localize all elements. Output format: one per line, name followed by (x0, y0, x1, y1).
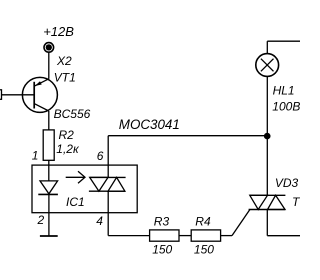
svg-text:4: 4 (96, 214, 103, 228)
svg-text:VD3: VD3 (275, 176, 299, 190)
svg-text:ТС: ТС (292, 195, 300, 209)
svg-text:R4: R4 (195, 214, 211, 228)
svg-text:2: 2 (37, 213, 45, 227)
svg-text:1: 1 (32, 148, 39, 162)
svg-text:HL1: HL1 (273, 84, 295, 98)
svg-text:100Вт: 100Вт (272, 99, 300, 113)
svg-text:150: 150 (194, 243, 214, 257)
svg-text:MOC3041: MOC3041 (119, 117, 180, 132)
svg-text:R3: R3 (154, 214, 170, 228)
svg-text:6: 6 (97, 149, 104, 163)
svg-text:IC1: IC1 (66, 195, 85, 209)
svg-text:1,2к: 1,2к (56, 142, 80, 156)
svg-text:BC556: BC556 (54, 107, 91, 121)
svg-text:150: 150 (152, 243, 172, 257)
svg-text:VT1: VT1 (54, 70, 76, 84)
svg-text:+12В: +12В (43, 24, 74, 39)
svg-text:X2: X2 (56, 54, 72, 68)
svg-text:R2: R2 (59, 128, 75, 142)
